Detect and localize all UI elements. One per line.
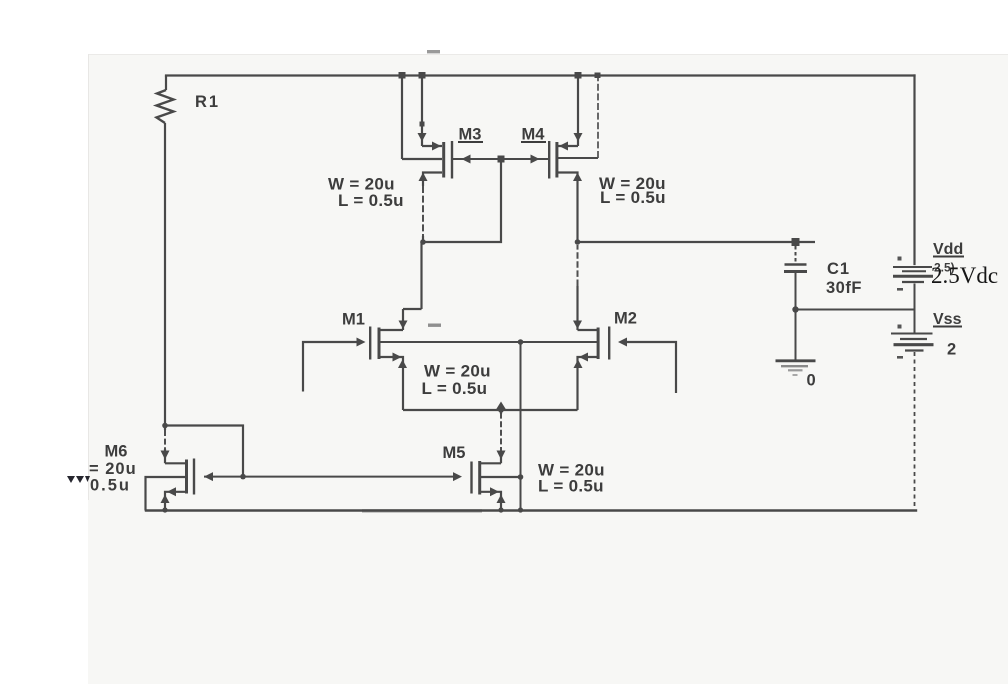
wire: Vdd top rail [166,74,915,76]
capacitor C1 [784,246,807,310]
transistor M6 [146,426,214,511]
voltage source Vss [891,310,934,359]
svg-text:Vdd: Vdd [933,241,963,258]
svg-text:2.5Vdc: 2.5Vdc [931,263,998,288]
svg-text:L = 0.5u: L = 0.5u [422,379,488,398]
scan smudge on bottom rail [362,509,482,512]
svg-text:2: 2 [947,341,956,359]
svg-text:M4: M4 [522,126,546,144]
wire: C1 node to supply midpoint [796,309,915,311]
wire: M1 gate lead and input stub [303,342,357,392]
ground 0 [776,361,816,375]
C1 value label [826,279,862,297]
C1 label [827,260,850,278]
svg-text:0.5u: 0.5u [90,477,131,495]
wire: bias node to M6/M5 gate line (diode connection) [165,426,243,477]
wire: M1-M2 bulk line [380,341,597,343]
M2 label [614,310,637,328]
wire: Vss bottom rail [146,509,916,511]
Vdd value 2.5Vdc [931,263,998,288]
svg-text:M1: M1 [342,311,365,329]
node: M3 bulk on rail [399,72,406,79]
scan artifact dash above rail [427,50,440,53]
svg-text:C1: C1 [827,260,850,278]
svg-text:R1: R1 [195,93,220,111]
wire: M2 gate lead and input stub [627,342,676,393]
node: bias node junction dot [162,423,168,429]
svg-text:L = 0.5u: L = 0.5u [338,191,404,210]
arrowhead into M5 gate [453,472,462,481]
wire: right branch from top rail to Vdd source [913,76,915,265]
scan artifact dash [428,324,441,327]
small clipped 2.5 label [934,261,955,275]
M1/M2 value label [422,362,491,399]
ground label 0 [807,372,816,390]
svg-text:M3: M3 [459,126,482,144]
wire: Vss to bottom rail (broken scan) [914,352,916,510]
M4 value label [599,174,666,207]
M6 value label L = 0.5u (clipped at margin) [90,477,131,495]
R1 label [195,93,220,111]
node: bulk line bottom junction [518,507,523,512]
transistor M1 [357,242,422,410]
svg-text:M6: M6 [105,443,128,461]
node: junction dot on gate line [240,474,246,480]
Vss value label 2 [947,341,956,359]
node: M4 drain junction [575,239,581,245]
svg-text:30fF: 30fF [826,279,862,297]
node: M4 bulk on rail [595,73,601,79]
svg-text:M2: M2 [614,310,637,328]
node: M3 source on rail [419,72,426,79]
wire: M1/M2 bulk line down to Vss rail [520,342,522,511]
arrow: tail current into coupling node [496,402,506,410]
Vdd label [933,241,964,258]
node: gate line tap junction [498,156,505,163]
node: M5 drain junction dot [498,407,504,413]
M3 label [458,126,483,144]
svg-text:0: 0 [807,372,816,390]
M5 value label [538,461,605,496]
resistor R1 [157,76,174,124]
svg-text:Vss: Vss [933,311,962,328]
node: M5 source on rail [498,507,503,512]
node: M5 bulk junction dot [518,474,524,480]
transistor M5 [470,410,520,511]
Vss label [933,311,962,328]
arrowhead into M4 gate [531,155,540,164]
transistor M3 [402,76,453,243]
node: M6 source junction on bottom rail [162,507,167,512]
node: M3 drain junction dot [420,239,426,245]
transistor M2 [573,245,627,410]
wire: R1 bottom lead down to bias node [164,123,166,426]
M1 label [342,311,365,329]
svg-text:= 20u: = 20u [89,460,137,478]
svg-text:M5: M5 [443,444,466,462]
voltage source Vdd [893,257,933,310]
M4 label [521,126,546,144]
transistor M4 [548,76,598,243]
M3 value label [328,175,404,211]
wire: gate line from M6 to M5 [204,476,453,478]
wire: gate line M3-M4 [453,158,549,160]
M6 label [105,443,128,461]
M5 label [443,444,466,462]
svg-text:W = 20u: W = 20u [424,362,491,381]
node: C1 bottom junction dot [792,306,798,312]
node: M4 source on rail [575,72,582,79]
wire: C1 node down to ground [795,310,797,360]
arrowhead into M3 gate [462,155,471,164]
M6 value label W = 20u (clipped at margin) [89,460,137,478]
wire: source coupling line M1-M2 [403,409,578,411]
clipped W fragment at left margin [67,476,90,483]
svg-text:L = 0.5u: L = 0.5u [538,477,604,496]
svg-text:L = 0.5u: L = 0.5u [600,188,666,207]
wire: node A (M3 drain to gates) [423,159,501,242]
wire: output node to C1 [578,241,816,243]
node: bulk line top junction [518,339,524,345]
node: output junction square [792,238,800,246]
